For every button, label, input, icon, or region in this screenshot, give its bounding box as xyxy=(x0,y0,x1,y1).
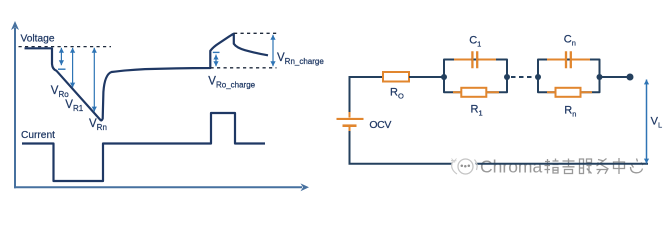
dashed level before charge pulse xyxy=(211,67,277,69)
tick above charge IR step xyxy=(213,51,220,53)
wire: top from battery corner to R_O xyxy=(349,76,384,78)
arrow V_Ro measure xyxy=(60,48,62,65)
output terminal dot xyxy=(627,74,634,81)
watermark char 务 xyxy=(597,159,609,175)
svg-text:VRo_charge: VRo_charge xyxy=(208,76,255,90)
arrow V_Ro_charge measure xyxy=(215,55,217,67)
capacitor Cn plates xyxy=(566,51,571,68)
x-axis arrowhead xyxy=(301,183,310,191)
arrow V_R1 measure xyxy=(72,48,74,88)
wire: bottom return xyxy=(349,163,649,165)
svg-text:VRn_charge: VRn_charge xyxy=(277,52,324,66)
RC pair 1 frame xyxy=(444,60,507,93)
resistor R1 xyxy=(461,88,486,97)
watermark char 售 xyxy=(563,159,575,174)
svg-text:R1: R1 xyxy=(471,103,483,117)
resistor R_O xyxy=(383,72,409,82)
wire: dashed link between RC pairs xyxy=(511,76,535,78)
wire: left vertical (battery branch, top) xyxy=(349,76,351,113)
current waveform xyxy=(22,113,265,181)
capacitor C1 leads xyxy=(454,59,496,61)
wire: R_O to node A xyxy=(409,76,444,78)
resistor Rn xyxy=(556,88,581,97)
svg-text:Current: Current xyxy=(21,130,55,141)
node D (junction dot) xyxy=(597,74,603,80)
y-axis arrowhead xyxy=(11,21,19,30)
RC pair n frame xyxy=(538,60,600,93)
capacitor C1 plates xyxy=(472,51,477,68)
node B (junction dot) xyxy=(504,74,510,80)
tick below initial IR drop xyxy=(58,68,66,70)
x-axis (time axis) xyxy=(14,186,302,188)
svg-text:RO: RO xyxy=(390,87,404,101)
svg-text:Rn: Rn xyxy=(564,104,576,118)
arrow V_Rn_charge measure xyxy=(272,35,274,66)
arrow V_Rn measure xyxy=(93,48,95,112)
svg-text:Chroma: Chroma xyxy=(480,157,543,177)
svg-text:VL: VL xyxy=(651,115,663,129)
capacitor Cn leads xyxy=(547,59,590,61)
svg-text:VRo: VRo xyxy=(51,85,69,99)
y-axis (voltage/current axis) xyxy=(14,28,16,188)
dashed level at charge peak xyxy=(234,32,277,34)
voltage curve xyxy=(25,34,269,121)
arrow V_L measure xyxy=(646,80,648,164)
wire: to output terminal xyxy=(600,76,631,78)
watermark char 中 xyxy=(614,158,625,174)
wire: left vertical (battery branch, bottom) xyxy=(349,131,351,164)
svg-text:Voltage: Voltage xyxy=(21,34,55,45)
svg-text:Cn: Cn xyxy=(564,33,576,47)
node A (junction dot) xyxy=(441,74,447,80)
dashed OCV level line xyxy=(19,46,112,48)
watermark char 销 xyxy=(545,159,559,174)
battery OCV (cell symbol) xyxy=(349,112,351,118)
resistor R1 leads xyxy=(453,91,499,93)
resistor Rn leads xyxy=(547,91,592,93)
watermark char 服 xyxy=(580,159,592,174)
svg-text:OCV: OCV xyxy=(369,119,391,131)
svg-text:VRn: VRn xyxy=(89,118,107,132)
watermark logo (drawn over wire) xyxy=(451,156,477,176)
svg-text:VR1: VR1 xyxy=(65,99,83,113)
watermark char 心 xyxy=(631,159,644,173)
svg-text:C1: C1 xyxy=(469,34,481,48)
node C (junction dot) xyxy=(535,74,541,80)
